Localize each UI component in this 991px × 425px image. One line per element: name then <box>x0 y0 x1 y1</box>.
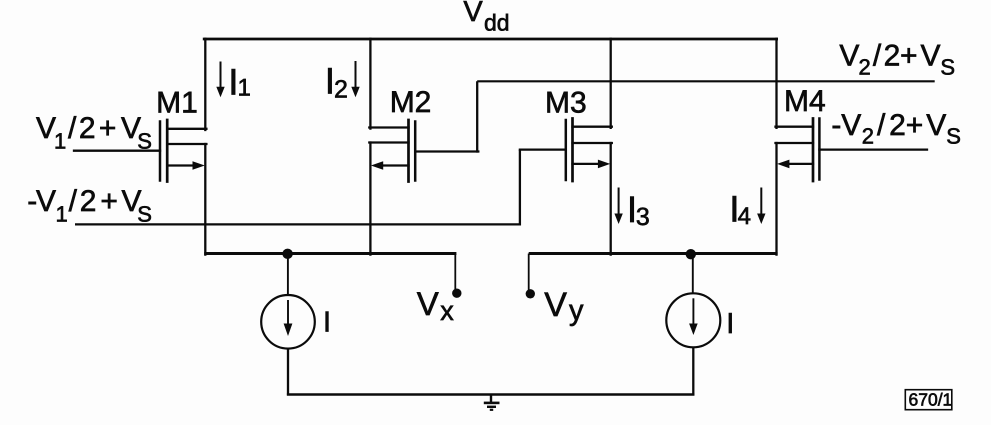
transistor M2 <box>369 120 478 182</box>
wire M4 source faller <box>775 143 777 255</box>
wire Vdd rail <box>204 38 776 41</box>
arrow current I2 <box>351 61 359 97</box>
node Vx stub <box>454 254 456 291</box>
transistor M3 <box>520 119 612 182</box>
arrow current I4 <box>757 188 765 225</box>
current source I right <box>666 293 720 347</box>
wire left tail stem <box>287 254 289 295</box>
wire M1 drain riser <box>204 39 206 130</box>
wire right tail stem <box>692 254 694 294</box>
svg-text:M2: M2 <box>390 86 432 119</box>
current source I left <box>261 295 315 349</box>
wire M1 source faller <box>204 144 206 255</box>
wire left source to ground rail <box>287 349 289 396</box>
svg-text:I: I <box>726 308 734 340</box>
wire V2/2+VS line <box>477 80 935 82</box>
arrow current I1 <box>216 62 224 98</box>
node Vy stub <box>528 254 530 291</box>
wire M2 source faller <box>369 143 371 255</box>
svg-text:670/1: 670/1 <box>909 390 953 410</box>
svg-text:M1: M1 <box>156 86 198 119</box>
svg-text:M4: M4 <box>784 85 826 118</box>
ground <box>484 395 500 410</box>
wire M3 gate feed riser <box>519 150 521 226</box>
wire M2 drain riser <box>369 39 371 129</box>
wire right source to ground rail <box>692 348 694 396</box>
node Vx terminal dot <box>452 289 461 298</box>
M4 source arrow <box>777 160 789 169</box>
M1 source arrow <box>193 161 205 170</box>
wire bottom right <box>529 252 778 255</box>
wire M2 gate riser <box>476 81 478 152</box>
arrow current I3 <box>614 188 622 225</box>
transistor M4 <box>776 119 928 182</box>
junction dot right tail node <box>686 249 696 259</box>
wire M3 drain riser <box>610 39 612 128</box>
svg-text:I: I <box>323 306 331 338</box>
wire ground rail <box>287 393 695 395</box>
wire M4 drain riser <box>775 39 777 128</box>
svg-text:M3: M3 <box>545 87 587 120</box>
M3 source arrow <box>598 160 610 169</box>
figure number box 670/1 <box>905 390 952 410</box>
transistor M1 <box>74 120 206 182</box>
wire M3 source faller <box>610 143 612 255</box>
M2 source arrow <box>371 161 383 170</box>
wire -V1/2+VS line <box>75 223 521 225</box>
node Vy terminal dot <box>526 289 535 298</box>
junction dot left tail node <box>282 249 292 259</box>
wire bottom left <box>204 252 456 255</box>
